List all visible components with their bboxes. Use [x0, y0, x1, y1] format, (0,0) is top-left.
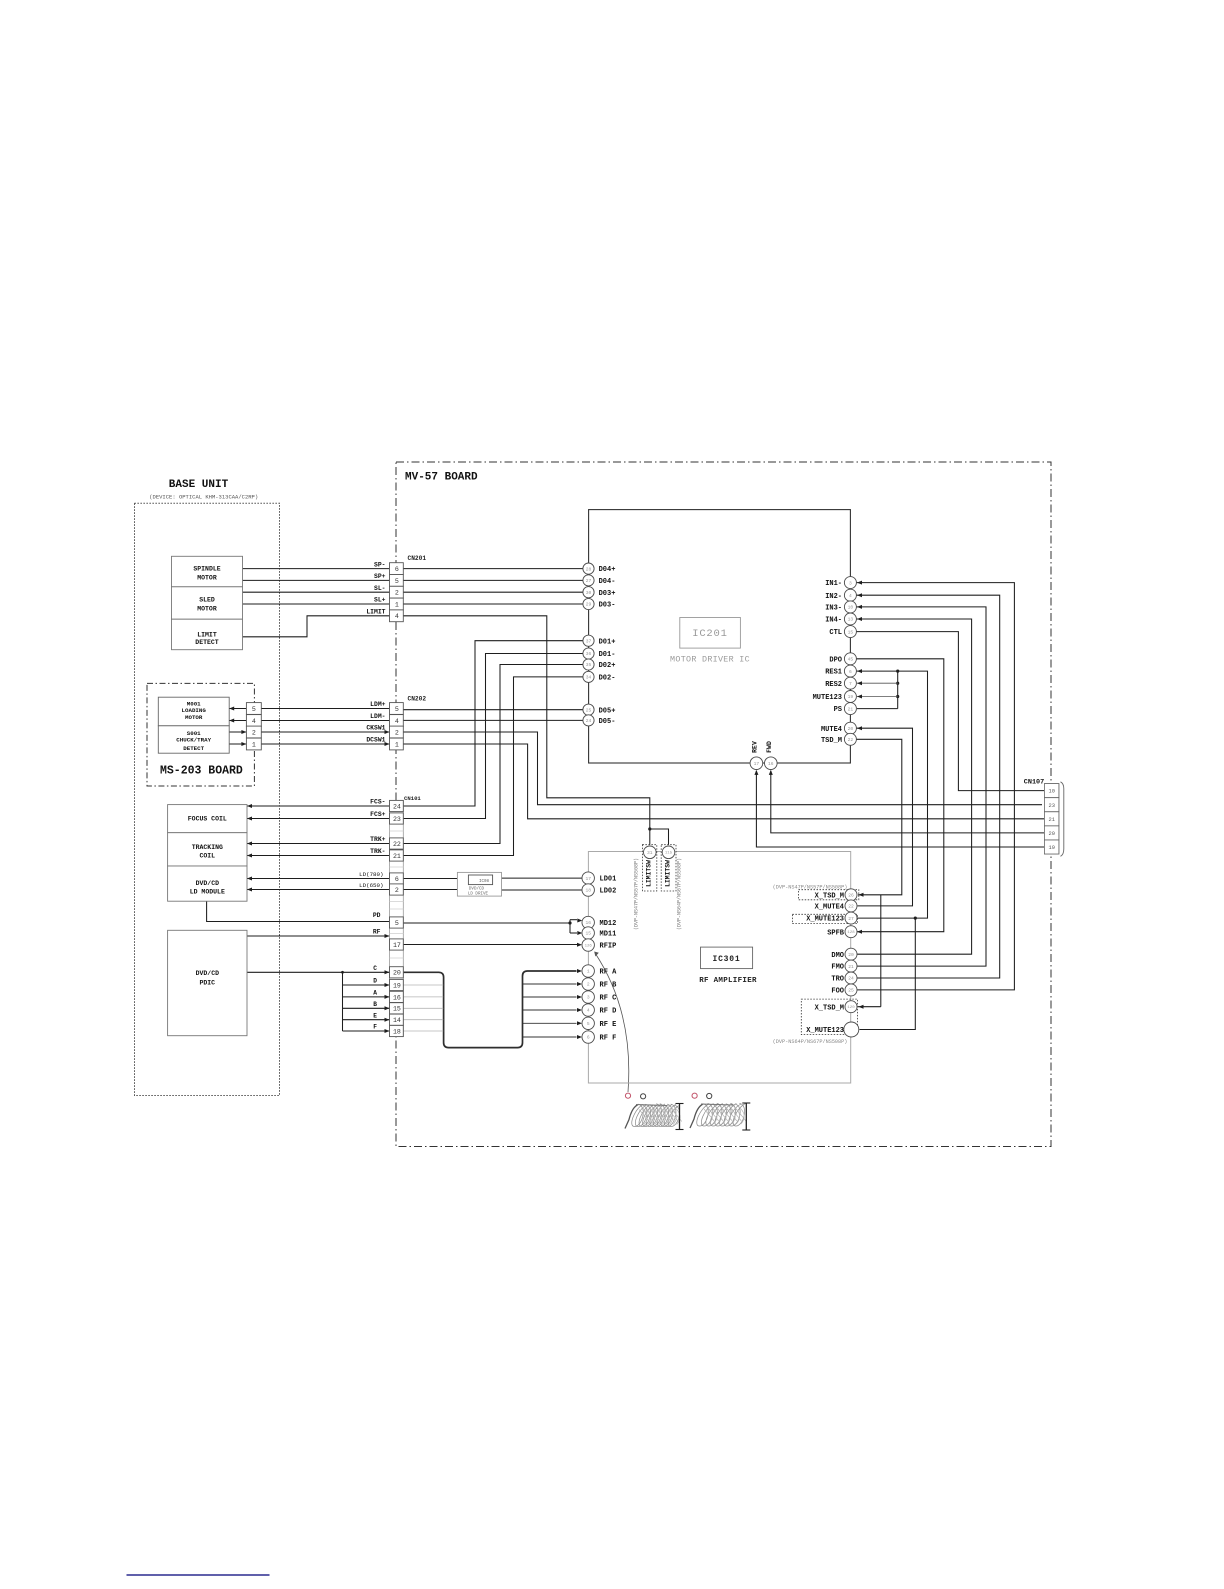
svg-text:LIMIT: LIMIT	[197, 632, 217, 639]
wire LD drive to LD02	[502, 889, 583, 891]
IC201 pin 29 D03-	[583, 598, 594, 609]
IC201 pin 37 D01+	[583, 635, 594, 646]
net PD CN101-5 to MD12/MD11	[403, 922, 570, 924]
svg-text:20: 20	[848, 952, 854, 958]
arrow C into CN101-20	[385, 970, 390, 974]
IC201 pin 30 D03+	[583, 587, 594, 598]
IC301 pin 4 RF D	[582, 1004, 594, 1016]
svg-text:LDM+: LDM+	[370, 701, 386, 708]
svg-text:22: 22	[848, 737, 854, 743]
IC301 pin X_MUTE123 lower	[844, 1022, 859, 1037]
svg-text:SP-: SP-	[374, 561, 386, 568]
svg-text:MOTOR: MOTOR	[197, 606, 217, 613]
net D02+ IC201-35 to CN101-22 TRK+	[403, 665, 583, 844]
wire CN201-5 to D04-	[403, 579, 583, 581]
svg-text:CN101: CN101	[404, 795, 421, 802]
svg-text:3: 3	[849, 580, 852, 586]
svg-text:MUTE4: MUTE4	[821, 726, 842, 734]
svg-text:MV-57 BOARD: MV-57 BOARD	[405, 472, 478, 484]
svg-text:RF AMPLIFIER: RF AMPLIFIER	[699, 977, 757, 985]
svg-text:DCSW1: DCSW1	[366, 737, 385, 744]
IC301 pin 31 LIMITSW dashed box	[642, 845, 656, 891]
PDIC split bus	[342, 972, 344, 1031]
svg-text:CHUCK/TRAY: CHUCK/TRAY	[176, 737, 211, 744]
test point circle black 1	[641, 1094, 646, 1099]
arrow into focus coil FCS-	[247, 804, 252, 808]
M001 loading motor box	[158, 697, 229, 726]
arrow B into CN101-15	[385, 1006, 390, 1010]
wire LDM+ CN202-5 to loading motor	[229, 708, 389, 710]
svg-text:10: 10	[1049, 789, 1055, 795]
svg-text:RFIP: RFIP	[600, 943, 617, 951]
svg-text:128: 128	[847, 931, 855, 935]
IC201 pin 15 CTL	[844, 626, 856, 638]
wire SP+ spindle to CN201-5	[243, 579, 390, 581]
net DPO to SPFB	[856, 659, 943, 932]
net D01+ IC201-37 to CN101-24 FCS-	[403, 641, 583, 806]
limit detect box	[172, 619, 243, 650]
svg-text:5: 5	[395, 920, 399, 927]
svg-text:RES1: RES1	[825, 669, 842, 677]
svg-text:(DEVICE: OPTICAL KHM-313CAA/C2: (DEVICE: OPTICAL KHM-313CAA/C2RP)	[149, 493, 258, 500]
net FWD to CN107-20	[771, 771, 1045, 833]
IC201 pin 4 IN2-	[844, 589, 856, 601]
wire RF CN101-17 to RFIP	[403, 944, 577, 946]
svg-text:X_MUTE123: X_MUTE123	[806, 1027, 844, 1035]
svg-text:21: 21	[393, 853, 401, 860]
IC301 label box	[701, 947, 753, 969]
svg-text:D05+: D05+	[599, 707, 616, 715]
spindle motor box	[172, 556, 243, 587]
dashed box around X_TSD_M 26	[799, 890, 859, 900]
net TSD_M to X_TSD_M pins	[856, 739, 901, 895]
DVD/CD PDIC box	[168, 930, 247, 1035]
wire D05+ CN202-5 to IC201-25	[403, 709, 584, 711]
test point circle red 1	[625, 1093, 630, 1098]
arrow into tracking coil TRK+	[247, 842, 252, 846]
wire LDM- CN202-4 to loading motor	[229, 720, 389, 722]
svg-text:REV: REV	[751, 741, 758, 753]
svg-text:DETECT: DETECT	[195, 639, 219, 646]
wire SP- spindle to CN201-6	[243, 568, 390, 570]
svg-text:IN2-: IN2-	[825, 593, 842, 601]
arrow A into CN101-16	[385, 995, 390, 999]
svg-text:DVD/CD: DVD/CD	[469, 886, 485, 891]
svg-text:16: 16	[393, 994, 401, 1001]
svg-text:A: A	[373, 990, 377, 997]
svg-text:TRO: TRO	[831, 976, 844, 984]
wire E bus to CN101-14	[343, 1019, 390, 1021]
DVD/CD LD module box	[168, 866, 247, 901]
svg-text:CN107: CN107	[1024, 778, 1044, 786]
connector CN107	[1044, 784, 1059, 854]
svg-text:21: 21	[848, 706, 854, 712]
svg-text:COIL: COIL	[199, 853, 215, 860]
arrow into focus coil FCS+	[247, 817, 252, 821]
IC201 pin 16 FWD	[765, 757, 778, 770]
svg-text:1: 1	[587, 969, 590, 975]
BASE UNIT border	[135, 503, 280, 1095]
net IN4- to DMO	[856, 619, 971, 954]
svg-text:5: 5	[395, 706, 399, 713]
IC201 pin 45 DPO	[844, 653, 856, 665]
svg-text:D05-: D05-	[599, 718, 616, 726]
CN107 bracket	[1061, 782, 1064, 857]
svg-text:RES2: RES2	[825, 681, 842, 689]
IC301 pin 120 X_TSD_M	[845, 1001, 857, 1013]
IC201 pin 24 D05-	[583, 715, 594, 726]
IC201 pin 22 TSD_M	[844, 733, 856, 745]
arrow CKSW1 into MS connector	[241, 730, 246, 734]
svg-text:15: 15	[585, 931, 591, 937]
net MUTE4 to X_MUTE4	[856, 728, 912, 906]
svg-text:MUTE123: MUTE123	[813, 694, 842, 702]
test point circle black 2	[707, 1093, 712, 1098]
IC301 pin 27 X_MUTE123	[845, 912, 857, 924]
arrow D into CN101-19	[385, 983, 390, 987]
IC301 pin 1 RF A	[582, 965, 594, 977]
net DCSW1 CN202-1 to CN107-21	[403, 744, 1044, 819]
svg-text:RF E: RF E	[600, 1021, 617, 1029]
net IN3- to FMO	[856, 607, 986, 966]
arrow into LD module LD(650)	[247, 888, 252, 892]
IC301 pin 17 LD01	[582, 872, 594, 884]
net X_MUTE123 lower link	[860, 918, 916, 1029]
svg-text:LIMITSW: LIMITSW	[646, 860, 653, 887]
svg-text:RF A: RF A	[600, 969, 618, 977]
IC201 pin 34 D02-	[583, 671, 594, 682]
wire RF PDIC to CN101	[247, 935, 390, 937]
svg-text:D03-: D03-	[599, 602, 616, 610]
svg-text:17: 17	[585, 876, 591, 882]
svg-text:13: 13	[848, 617, 854, 623]
svg-text:TSD_M: TSD_M	[821, 737, 842, 745]
IC201 pin 10 IN3-	[844, 601, 856, 613]
MS-203 board connector	[246, 703, 261, 715]
svg-text:120: 120	[847, 1006, 855, 1010]
wire CN101-2 to LD drive	[403, 889, 457, 891]
arrow into LD module LD(780)	[247, 877, 252, 881]
svg-text:RF F: RF F	[600, 1035, 617, 1043]
svg-text:6: 6	[849, 669, 852, 675]
IC301 pin 26 X_TSD_M	[845, 889, 857, 901]
net IN2- to TRO	[856, 595, 999, 978]
svg-text:DETECT: DETECT	[183, 745, 204, 752]
IC201 label box	[680, 618, 741, 649]
IC301 pin 21 FMO	[845, 960, 857, 972]
IC301 pin 5 RF E	[582, 1017, 594, 1029]
S001 chuck/tray detect box	[158, 726, 229, 753]
svg-text:17: 17	[754, 761, 760, 767]
svg-text:(DVP-NS64P/NS67P/NS508P): (DVP-NS64P/NS67P/NS508P)	[773, 1039, 848, 1045]
net IN1- to FOO	[856, 583, 1014, 990]
focus coil box	[168, 805, 247, 833]
svg-text:23: 23	[393, 816, 401, 823]
svg-text:1: 1	[395, 601, 399, 608]
svg-text:LD(780): LD(780)	[359, 871, 383, 878]
svg-text:16: 16	[585, 920, 591, 926]
svg-text:126: 126	[585, 944, 593, 948]
svg-text:24: 24	[586, 718, 592, 724]
wire CN201-6 to D04+	[403, 568, 583, 570]
svg-text:F: F	[373, 1024, 377, 1031]
IC301 pin 22 X_MUTE4	[845, 900, 857, 912]
svg-text:SL-: SL-	[374, 585, 386, 592]
svg-text:X_MUTE4: X_MUTE4	[815, 904, 844, 912]
svg-text:5: 5	[395, 578, 399, 585]
svg-text:LD02: LD02	[600, 888, 617, 896]
svg-text:D01-: D01-	[599, 651, 616, 659]
svg-text:SL+: SL+	[374, 597, 386, 604]
svg-text:25: 25	[586, 707, 592, 713]
svg-text:SPINDLE: SPINDLE	[193, 566, 220, 573]
svg-text:24: 24	[393, 803, 401, 810]
IC301 pin 15 MD11	[582, 927, 594, 939]
svg-text:E: E	[373, 1012, 377, 1019]
svg-text:115: 115	[665, 852, 673, 856]
svg-text:15: 15	[848, 629, 854, 635]
svg-text:PDIC: PDIC	[199, 980, 215, 987]
svg-text:CN202: CN202	[408, 696, 427, 703]
svg-text:SLED: SLED	[199, 597, 215, 604]
svg-text:19: 19	[393, 982, 401, 989]
svg-text:DMO: DMO	[831, 952, 844, 960]
wire B bus to CN101-15	[343, 1007, 390, 1009]
svg-text:19: 19	[848, 694, 854, 700]
arrow into loading motor LDM-	[229, 719, 234, 723]
svg-text:FCS-: FCS-	[370, 799, 385, 806]
dashed box around X_MUTE123 27	[792, 914, 857, 923]
IC201 pin 35 D02+	[583, 659, 594, 670]
arrow CKSW1 into CN202	[385, 730, 390, 734]
svg-text:22: 22	[393, 841, 401, 848]
svg-text:(DVP-NS47P/NS57P/NS508P): (DVP-NS47P/NS57P/NS508P)	[634, 858, 640, 930]
IC301 pin 2 RF B	[582, 978, 594, 990]
wire TRK- CN101-21 to tracking coil	[247, 855, 390, 857]
wire FCS- CN101-24 to focus coil	[247, 805, 390, 807]
wire D bus to CN101-19	[343, 984, 390, 986]
dashed box around lower X_TSD_M/X_MUTE123	[801, 999, 857, 1035]
wire D05- CN202-4 to IC201-24	[403, 719, 584, 721]
wire DCSW1 chuck detect to CN202-1	[229, 743, 389, 745]
svg-text:20: 20	[393, 970, 401, 977]
svg-text:IN1-: IN1-	[825, 580, 842, 588]
svg-text:6: 6	[395, 876, 399, 883]
arrow DCSW1 into MS connector	[241, 742, 246, 746]
svg-text:SPFB: SPFB	[827, 929, 845, 937]
svg-text:17: 17	[393, 942, 401, 949]
IC301 pin 3 RF C	[582, 991, 594, 1003]
IC201 pin 36 D01-	[583, 648, 594, 659]
svg-text:4: 4	[395, 718, 399, 725]
svg-text:4: 4	[849, 593, 852, 599]
wire CN201-1 to D03-	[403, 603, 583, 605]
IC201 pin 27 D04-	[583, 575, 594, 586]
arrow into loading motor LDM+	[229, 707, 234, 711]
svg-text:7: 7	[849, 681, 852, 687]
svg-text:16: 16	[768, 761, 774, 767]
net RES1/RES2/MUTE123/PS tie	[856, 671, 927, 918]
IC201 pin 28 D04+	[583, 563, 594, 574]
wire SL- sled to CN201-2	[243, 591, 390, 593]
svg-text:DVD/CD: DVD/CD	[196, 970, 220, 977]
IC301 pin 6 RF F	[582, 1031, 594, 1043]
svg-text:22: 22	[848, 904, 854, 910]
svg-text:28: 28	[586, 566, 592, 572]
svg-text:35: 35	[586, 662, 592, 668]
svg-text:24: 24	[848, 976, 854, 982]
svg-text:18: 18	[585, 888, 591, 894]
svg-text:RF D: RF D	[600, 1008, 617, 1016]
svg-text:37: 37	[586, 638, 592, 644]
wire TRK+ CN101-22 to tracking coil	[247, 843, 390, 845]
svg-text:PD: PD	[373, 912, 381, 919]
svg-text:21: 21	[848, 964, 854, 970]
svg-text:B: B	[373, 1001, 377, 1008]
IC201 pin 19 MUTE123	[844, 691, 856, 703]
wire F bus to CN101-18	[343, 1030, 390, 1032]
arrow RF into CN101	[385, 934, 390, 938]
svg-text:MD12: MD12	[600, 920, 617, 928]
svg-text:FCS+: FCS+	[370, 811, 386, 818]
IC201 pin 7 RES2	[844, 677, 856, 689]
svg-text:21: 21	[1049, 817, 1055, 823]
svg-text:19: 19	[1049, 845, 1055, 851]
footer blue rule	[127, 1574, 270, 1576]
wire LD drive to LD01	[502, 877, 583, 879]
wire CKSW1 chuck detect to CN202-2	[229, 731, 389, 733]
svg-text:3: 3	[587, 995, 590, 1001]
svg-text:MS-203 BOARD: MS-203 BOARD	[160, 765, 243, 778]
svg-text:IC301: IC301	[712, 955, 740, 964]
svg-text:(DVP-NS47P/NS57P/NS508P): (DVP-NS47P/NS57P/NS508P)	[773, 884, 848, 890]
wire FCS+ CN101-23 to focus coil	[247, 818, 390, 820]
svg-text:SP+: SP+	[374, 573, 386, 580]
svg-text:36: 36	[586, 651, 592, 657]
svg-text:X_MUTE123: X_MUTE123	[806, 916, 844, 924]
svg-text:RF C: RF C	[600, 995, 617, 1003]
svg-text:18: 18	[393, 1028, 401, 1035]
wire LIMIT detect to CN201-4	[243, 616, 390, 637]
svg-text:26: 26	[848, 892, 854, 898]
svg-text:31: 31	[647, 850, 653, 856]
svg-text:X_TSD_M: X_TSD_M	[815, 892, 844, 900]
svg-text:FMO: FMO	[831, 964, 844, 972]
wire SL+ sled to CN201-1	[243, 603, 390, 605]
shielded coil drawing 2	[690, 1104, 703, 1128]
svg-text:LD DRIVE: LD DRIVE	[468, 892, 489, 896]
wire LD(780) CN101-6 to LD module	[247, 878, 390, 880]
IC201 pin 20 MUTE4	[844, 722, 856, 734]
svg-text:FOCUS COIL: FOCUS COIL	[188, 816, 227, 823]
connector CN202	[390, 703, 404, 715]
svg-text:14: 14	[393, 1017, 401, 1024]
MS-203 BOARD border	[147, 683, 254, 786]
svg-text:D02-: D02-	[599, 675, 616, 683]
wire LD(650) CN101-2 to LD module	[247, 889, 390, 891]
arrow into tracking coil TRK-	[247, 854, 252, 858]
svg-text:10: 10	[848, 605, 854, 611]
IC201 motor driver IC body	[589, 510, 851, 763]
svg-text:MOTOR DRIVER IC: MOTOR DRIVER IC	[670, 654, 750, 664]
svg-text:IN4-: IN4-	[825, 617, 842, 625]
wire CN201-2 to D03+	[403, 591, 583, 593]
svg-text:DPO: DPO	[829, 656, 842, 664]
svg-text:LDM-: LDM-	[370, 713, 385, 720]
net D02- IC201-34 to CN101-21 TRK-	[403, 677, 583, 856]
net D01- IC201-36 to CN101-23 FCS+	[403, 654, 583, 819]
IC201 pin 6 RES1	[844, 665, 856, 677]
IC201 pin 25 D05+	[583, 704, 594, 715]
svg-text:34: 34	[586, 675, 592, 681]
svg-text:LD(650): LD(650)	[359, 882, 383, 889]
svg-text:2: 2	[395, 590, 399, 597]
arrow F into CN101-18	[385, 1029, 390, 1033]
net CTL to CN107-10	[856, 632, 1044, 791]
IC301 pin 128 SPFB	[845, 926, 857, 938]
IC301 pin 16 MD12	[582, 916, 594, 928]
connector CN201	[390, 563, 404, 575]
IC301 pin 20 DMO	[845, 948, 857, 960]
IC201 pin 21 PS	[844, 703, 856, 715]
svg-text:IC201: IC201	[692, 628, 728, 640]
svg-text:5: 5	[587, 1021, 590, 1027]
svg-text:PS: PS	[834, 706, 842, 714]
svg-text:CKSW1: CKSW1	[366, 725, 385, 732]
svg-text:29: 29	[586, 602, 592, 608]
IC301 RF amplifier body	[588, 852, 850, 1084]
RFIP test point arc	[595, 953, 629, 1092]
svg-text:MOTOR: MOTOR	[197, 575, 217, 582]
svg-text:D04-: D04-	[599, 578, 616, 586]
svg-text:25: 25	[848, 988, 854, 994]
svg-text:TRK+: TRK+	[370, 836, 386, 843]
IC301 pin 18 LD02	[582, 884, 594, 896]
svg-text:LD01: LD01	[600, 876, 617, 884]
net LIMIT to LIMITSW pins	[403, 616, 650, 829]
svg-text:RF: RF	[373, 929, 381, 936]
svg-text:LD MODULE: LD MODULE	[190, 889, 225, 896]
RF ABCDEF bundle	[403, 971, 576, 1048]
wire C PDIC to CN101-20	[247, 971, 390, 973]
arrow DCSW1 into CN202	[385, 742, 390, 746]
IC301 pin 126 RFIP	[582, 939, 594, 951]
MV-57 BOARD border	[396, 462, 1051, 1147]
svg-text:D04+: D04+	[599, 566, 616, 574]
test point circle red 2	[692, 1093, 697, 1098]
coil 1 end bracket	[679, 1104, 681, 1130]
svg-text:D02+: D02+	[599, 662, 616, 670]
svg-text:1: 1	[395, 741, 399, 748]
svg-text:27: 27	[848, 916, 854, 922]
svg-text:IN3-: IN3-	[825, 605, 842, 613]
svg-text:20: 20	[1049, 831, 1055, 837]
svg-text:30: 30	[586, 590, 592, 596]
svg-text:X_TSD_M: X_TSD_M	[815, 1004, 844, 1012]
svg-text:2: 2	[252, 729, 256, 736]
svg-text:5: 5	[252, 706, 256, 713]
wire CN101-6 to LD drive	[403, 878, 457, 880]
svg-text:TRK-: TRK-	[370, 848, 385, 855]
svg-text:CN201: CN201	[408, 555, 427, 562]
svg-text:D03+: D03+	[599, 590, 616, 598]
IC201 pin 3 IN1-	[844, 577, 856, 589]
tracking coil box	[168, 833, 247, 866]
shielded coil drawing 1	[625, 1105, 638, 1129]
net REV to CN107-19	[756, 771, 1044, 847]
IC201 pin 17 REV	[750, 757, 763, 770]
svg-text:TRACKING: TRACKING	[192, 844, 223, 851]
